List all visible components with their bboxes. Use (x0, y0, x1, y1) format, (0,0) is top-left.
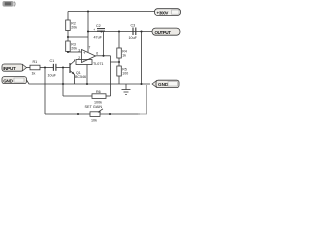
connector INPUT (2, 64, 27, 71)
wire top +300V rail (68, 11, 155, 13)
svg-text:+: + (83, 50, 86, 55)
svg-text:C3: C3 (131, 24, 136, 28)
node rail x141.5 (140, 83, 142, 85)
connector GND left (2, 77, 27, 84)
svg-text:10uF: 10uF (48, 74, 57, 78)
capacitor C3 (129, 24, 138, 40)
wire bleeder x141.5 (141, 32, 143, 85)
connector GND right (152, 80, 179, 87)
svg-text:3: 3 (78, 49, 80, 53)
svg-text:C2: C2 (96, 24, 101, 28)
wire feedback tap to rail (86, 65, 88, 85)
resistor R2 (66, 20, 77, 31)
wire pot return x146.5 (138, 85, 147, 114)
svg-text:BC546: BC546 (75, 75, 86, 79)
svg-text:+: + (93, 28, 95, 32)
wire x88 vertical to op-amp top (87, 12, 89, 53)
wire x110.5 vertical (110, 56, 112, 96)
wire C1 to base (56, 67, 70, 69)
wire to op-amp + input (68, 51, 82, 53)
svg-text:+300V: +300V (157, 10, 169, 15)
wire x68 drop to R2 (67, 12, 69, 21)
badge icon top-left (3, 1, 16, 7)
node output C2 join (102, 55, 104, 57)
node R3 bottom (67, 51, 69, 53)
svg-text:1k: 1k (32, 71, 36, 75)
wire input to R1 (27, 67, 31, 69)
node supply junction (87, 10, 89, 12)
node C2 top (100, 30, 102, 32)
wire R1 to C1 (40, 67, 53, 69)
node divider mid (67, 36, 69, 38)
wire R5 bottom to rail (118, 76, 120, 84)
connector OUTPUT (152, 28, 180, 35)
node feedback tap (118, 61, 120, 63)
svg-text:R1: R1 (33, 60, 38, 64)
wire R4 to R5 (118, 58, 120, 66)
resistor R5 (117, 66, 128, 76)
svg-text:6: 6 (96, 51, 98, 55)
wire op-amp output (96, 55, 111, 57)
potentiometer P1 set gain (45, 105, 140, 123)
svg-text:47uF: 47uF (94, 36, 103, 40)
node pot left (77, 113, 79, 115)
node base wire / feedback (62, 66, 64, 68)
node R4 top (118, 30, 120, 32)
svg-text:20k: 20k (71, 46, 77, 50)
wire x119 to R4 (118, 32, 120, 49)
svg-text:SET GAIN: SET GAIN (85, 105, 103, 109)
node input to pot (44, 66, 46, 68)
svg-text:TL071: TL071 (93, 62, 103, 66)
wire x63 vertical to R6 loop (62, 68, 64, 97)
node pot right (109, 113, 111, 115)
feedback loop box (76, 60, 92, 65)
svg-text:10uF: 10uF (129, 36, 138, 40)
op-amp U1 (78, 45, 103, 66)
resistor R4 (117, 48, 127, 58)
wire between R2 and R3 (67, 31, 69, 42)
svg-text:OUTPUT: OUTPUT (155, 30, 172, 35)
capacitor C1 (48, 59, 57, 78)
wire output rail y31.5 (88, 31, 152, 33)
svg-text:10k: 10k (91, 119, 97, 123)
svg-text:GND: GND (158, 82, 169, 87)
svg-text:100: 100 (122, 72, 128, 76)
svg-text:R6: R6 (96, 90, 101, 94)
wire ground rail (27, 80, 151, 84)
transistor Q1 (70, 60, 86, 85)
resistor R3 (66, 41, 77, 52)
svg-text:20k: 20k (71, 25, 77, 29)
ground symbol (122, 84, 131, 95)
node output rail at x88 (87, 30, 89, 32)
node rail x63 (62, 83, 64, 85)
svg-text:1k: 1k (122, 54, 126, 58)
wire x45 vertical to pot line (44, 68, 46, 115)
resistor R1 (30, 60, 40, 76)
capacitor C2 (93, 24, 105, 56)
svg-text:100k: 100k (94, 101, 102, 105)
wire divider mid to x88 (68, 36, 88, 38)
svg-text:GND: GND (3, 78, 13, 83)
connector +300V (155, 9, 181, 16)
resistor R6 (63, 90, 111, 105)
node bleeder top (140, 30, 142, 32)
node rail x87 (86, 83, 88, 85)
svg-text:INPUT: INPUT (3, 66, 16, 71)
svg-text:7: 7 (89, 45, 91, 49)
wire tap to x110.5 (111, 61, 120, 63)
svg-text:C1: C1 (50, 59, 55, 63)
